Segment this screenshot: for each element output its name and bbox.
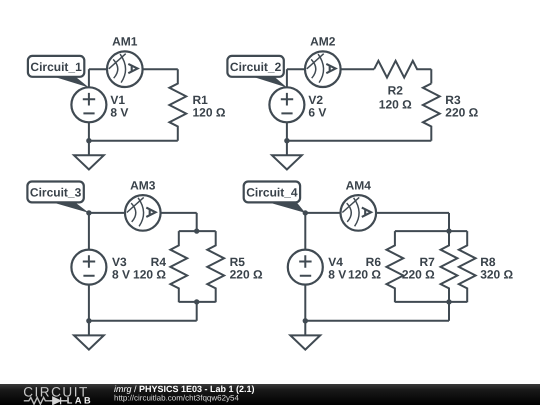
- svg-text:120 Ω: 120 Ω: [193, 106, 226, 120]
- svg-text:AM3: AM3: [130, 178, 156, 192]
- wire: AM2 right to R2: [341, 68, 375, 70]
- wire: V4 bottom to rail: [304, 285, 306, 321]
- wire: rail to ground 1: [88, 141, 90, 156]
- wire: V2 top to corner: [286, 69, 288, 87]
- junction: circuit 2 rail node: [284, 138, 289, 143]
- junction: circuit 4 bottom bar node: [446, 299, 451, 304]
- wire: node to AM3 left: [89, 212, 125, 214]
- wire: bottom bar down to rail: [448, 302, 450, 321]
- wire: corner to AM2 left: [287, 68, 305, 70]
- junction: circuit 4 top bar node: [446, 228, 451, 233]
- resistor R5: [207, 231, 224, 302]
- svg-text:8 V: 8 V: [328, 268, 346, 282]
- wire: V1 bottom to rail: [88, 122, 90, 140]
- footer bar: [0, 384, 540, 405]
- junction: circuit 4 rail node: [303, 318, 308, 323]
- wire: V3 top from node: [88, 213, 90, 250]
- ground (circuit 2): [272, 155, 302, 169]
- resistor R8: [459, 231, 476, 302]
- node flag Circuit_3: [27, 182, 89, 213]
- wire: bottom rail circuit 3: [89, 320, 197, 322]
- wire: bottom bar circuit 4: [395, 301, 467, 303]
- resistor R2: [374, 61, 431, 78]
- wire: V2 bottom to rail: [286, 122, 288, 140]
- wire: corner down to top bar: [196, 213, 198, 231]
- junction: bottom bar node: [194, 299, 199, 304]
- junction: circuit 3 top node: [86, 210, 91, 215]
- wire: bottom rail circuit 1: [89, 140, 178, 142]
- junction: circuit 1 rail node: [86, 138, 91, 143]
- svg-text:320 Ω: 320 Ω: [480, 268, 513, 282]
- voltage source V4: [288, 250, 323, 285]
- svg-text:Circuit_4: Circuit_4: [246, 186, 298, 200]
- svg-text:http://circuitlab.com/cht3fqqw: http://circuitlab.com/cht3fqqw62y54: [114, 393, 240, 402]
- wire: rail to ground 3: [88, 321, 90, 336]
- junction: circuit 4 top node: [303, 210, 308, 215]
- wire: bottom rail circuit 2: [287, 140, 431, 142]
- voltage source V2: [269, 87, 304, 122]
- junction: circuit 3 rail node: [86, 318, 91, 323]
- resistor R4: [170, 231, 187, 302]
- wire: bottom bar down to rail: [196, 302, 198, 321]
- resistor R1: [169, 69, 186, 141]
- wire: top bar of parallel pair: [179, 230, 216, 232]
- ammeter AM3: [125, 195, 161, 231]
- wire: corner down to top bar: [448, 213, 450, 231]
- wire: V3 bottom to rail: [88, 285, 90, 321]
- svg-text:R2: R2: [388, 84, 404, 98]
- wire: R2 right corner down to R3: [430, 69, 432, 83]
- svg-text:220 Ω: 220 Ω: [230, 268, 263, 282]
- junction: top bar node: [194, 228, 199, 233]
- wire: V4 top from node: [304, 213, 306, 250]
- svg-text:120 Ω: 120 Ω: [379, 97, 412, 111]
- voltage source V3: [71, 250, 106, 285]
- wire: rail to ground 4: [304, 321, 306, 336]
- svg-text:8 V: 8 V: [112, 268, 130, 282]
- svg-text:Circuit_3: Circuit_3: [30, 186, 82, 200]
- wire: node to AM4 left: [305, 212, 340, 214]
- wire: AM3 right to corner: [161, 212, 197, 214]
- svg-text:220 Ω: 220 Ω: [445, 106, 478, 120]
- node flag Circuit_4: [244, 182, 306, 213]
- ammeter AM2: [305, 51, 341, 87]
- wire: V1 top to corner: [88, 69, 90, 87]
- svg-text:120 Ω: 120 Ω: [348, 268, 381, 282]
- node flag Circuit_1: [28, 56, 89, 88]
- ground (circuit 4): [290, 335, 320, 349]
- logo diode symbol: [50, 397, 67, 404]
- wire: bottom rail circuit 4: [305, 320, 449, 322]
- wire: AM1 right to R1 top corner: [143, 68, 178, 70]
- wire: rail to ground 2: [286, 141, 288, 156]
- voltage source V1: [71, 87, 106, 122]
- node flag Circuit_2: [227, 56, 287, 88]
- wire: AM4 right to corner: [376, 212, 449, 214]
- ground (circuit 1): [74, 155, 104, 169]
- svg-text:AM4: AM4: [346, 178, 372, 192]
- svg-text:8 V: 8 V: [110, 106, 128, 120]
- wire: bottom bar of parallel pair: [179, 301, 216, 303]
- resistor R3: [423, 84, 440, 141]
- svg-text:120 Ω: 120 Ω: [133, 268, 166, 282]
- svg-text:6 V: 6 V: [308, 106, 326, 120]
- logo resistor squiggle: [24, 397, 51, 404]
- svg-text:AM2: AM2: [310, 35, 336, 49]
- ground (circuit 3): [74, 335, 104, 349]
- resistor R7: [441, 231, 458, 302]
- ammeter AM1: [107, 51, 143, 87]
- svg-text:LAB: LAB: [67, 395, 93, 405]
- wire: corner to AM1 left: [89, 68, 107, 70]
- resistor R6: [387, 231, 404, 302]
- wire: top bar circuit 4: [395, 230, 467, 232]
- ammeter AM4: [341, 195, 377, 231]
- svg-text:220 Ω: 220 Ω: [402, 268, 435, 282]
- svg-text:Circuit_2: Circuit_2: [230, 60, 282, 74]
- svg-text:Circuit_1: Circuit_1: [30, 60, 82, 74]
- svg-text:AM1: AM1: [112, 35, 138, 49]
